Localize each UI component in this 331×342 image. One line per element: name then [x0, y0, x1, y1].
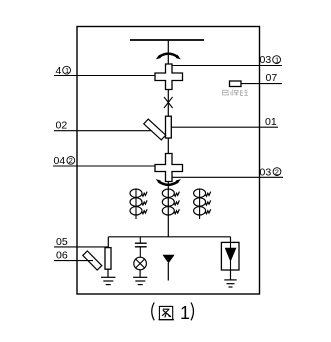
breaker diagonal operating bar — [144, 119, 166, 140]
svg-text:2: 2 — [69, 156, 73, 165]
feeder wire end — [167, 263, 169, 281]
lamp ground — [133, 270, 147, 285]
wire contact through CTs to bottom bus — [167, 182, 169, 238]
breaker X symbol — [164, 97, 173, 108]
svg-text:06: 06 — [56, 250, 68, 262]
surge arrester F body — [221, 242, 239, 270]
wire label 06 — [54, 260, 93, 262]
label 04(2) — [54, 155, 75, 167]
svg-text:1: 1 — [65, 66, 69, 75]
arrester drop wire — [230, 237, 232, 243]
svg-text:02: 02 — [56, 120, 68, 132]
grey text yi-chu-neng — [223, 90, 248, 96]
isolating contact upper (cross) — [155, 64, 183, 90]
caption ( tu 1 ) — [152, 303, 194, 324]
bottom bus wire — [108, 236, 230, 238]
CT secondary marks (w) — [142, 192, 211, 214]
label 03(1) — [260, 54, 281, 66]
earthing switch ground — [101, 269, 116, 284]
lamp HL (circle with X) — [134, 257, 147, 270]
charging contact (small rect) — [230, 81, 242, 87]
label 03(2) — [260, 166, 281, 178]
wire label 02 to breaker — [54, 130, 151, 132]
capacitor stub from bus — [139, 237, 141, 243]
label 4(1) — [56, 65, 71, 77]
wire label 4-1 to contact — [54, 75, 155, 77]
capacitor C — [135, 243, 147, 247]
arrester ground — [224, 270, 236, 287]
outgoing feeder arrow — [163, 255, 175, 264]
busbar — [130, 39, 204, 41]
wire breaker to label 01 — [171, 126, 278, 128]
svg-text:01: 01 — [265, 116, 277, 128]
lower withdrawable contact arc — [156, 179, 181, 185]
svg-text:05: 05 — [56, 236, 68, 248]
svg-text:1: 1 — [275, 55, 279, 64]
cubicle outline box — [77, 27, 260, 295]
current transformers TA (3x3 circles) — [130, 189, 206, 215]
upper withdrawable contact arc — [156, 54, 181, 60]
wire label 04-2 to contact — [53, 165, 155, 167]
wire capacitor to lamp — [139, 247, 141, 257]
svg-text:4: 4 — [56, 65, 62, 77]
svg-text:03: 03 — [260, 54, 272, 66]
svg-text:03: 03 — [260, 166, 272, 178]
earthing switch drop wire — [107, 237, 109, 248]
wire charging contact to label 07 — [241, 83, 282, 85]
CT column left wire — [135, 189, 137, 219]
wire breaker to lower contact — [167, 138, 169, 154]
wire busbar to upper contact — [167, 40, 169, 65]
isolating contact lower (cross) — [155, 154, 183, 182]
svg-text:2: 2 — [275, 167, 279, 176]
svg-text:04: 04 — [54, 155, 66, 167]
svg-text:1: 1 — [180, 303, 190, 323]
circuit breaker body rect — [166, 116, 172, 138]
wire contact to label 03-1 — [172, 65, 282, 67]
arrester internal arrow — [225, 242, 237, 270]
earthing switch diagonal bar — [83, 251, 102, 270]
svg-text:07: 07 — [266, 72, 278, 84]
wire contact to label 03-2 — [172, 176, 283, 178]
wire contact to breaker X — [167, 90, 169, 117]
CT column right wire — [199, 189, 201, 219]
wire label 05 — [54, 246, 108, 248]
earthing switch body rect — [105, 248, 111, 270]
